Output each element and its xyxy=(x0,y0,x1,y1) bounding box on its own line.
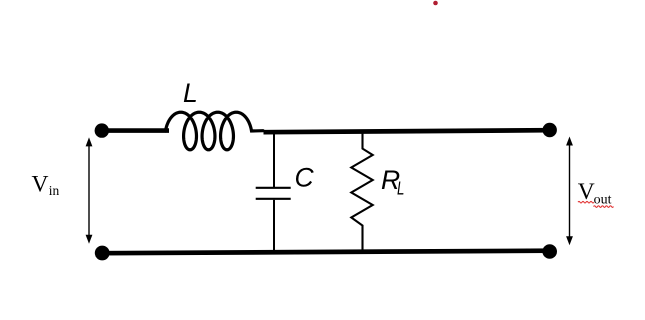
svg-text:out: out xyxy=(594,192,612,207)
svg-text:C: C xyxy=(295,163,315,193)
svg-text:V: V xyxy=(32,172,49,198)
svg-text:in: in xyxy=(49,183,60,198)
svg-text:L: L xyxy=(397,178,404,199)
svg-text:L: L xyxy=(183,78,198,108)
